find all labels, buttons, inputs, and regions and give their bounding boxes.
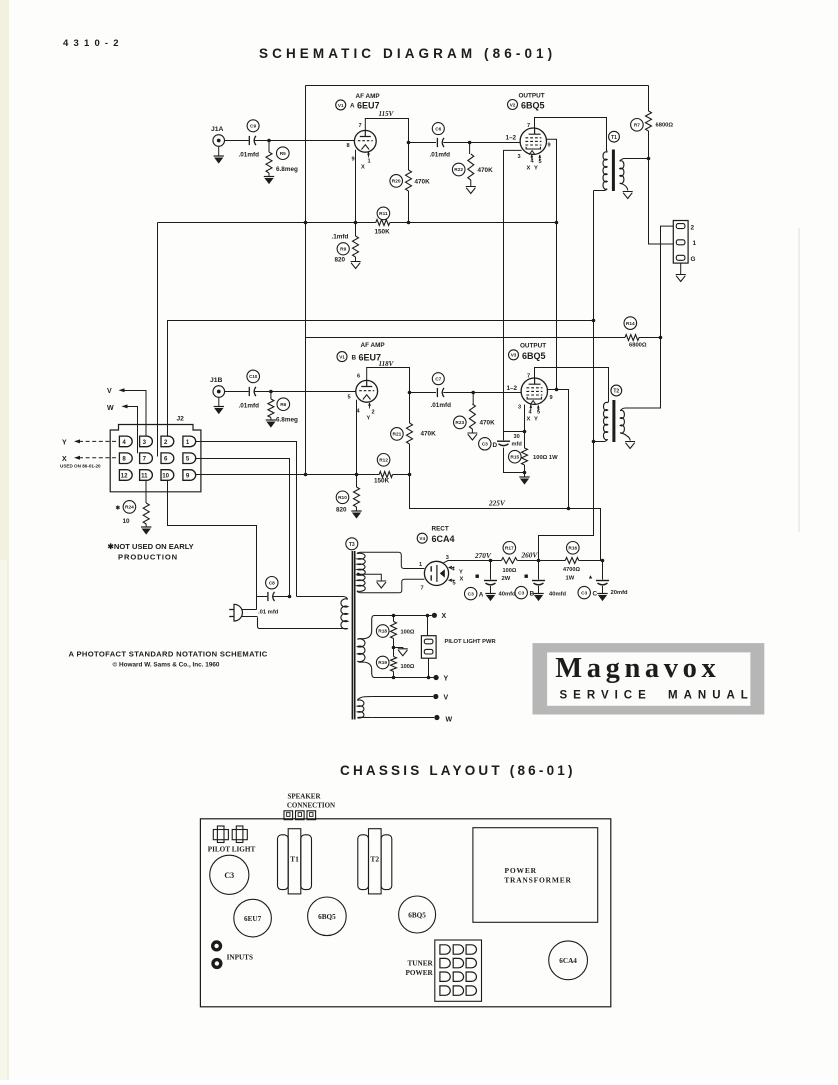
J2 pin 10 [161, 470, 174, 481]
chassis tube 6CA4 [549, 941, 588, 980]
note PHOTOFACT [69, 650, 268, 669]
wire bus corner to J2 pin6 [157, 223, 159, 457]
svg-text:R23: R23 [455, 420, 464, 426]
svg-text:Y: Y [367, 416, 371, 422]
svg-text:C9: C9 [250, 124, 256, 130]
speaker connection terminals [284, 811, 316, 820]
AC plug [229, 604, 257, 621]
resistor R17 100ohm 2W [501, 542, 517, 583]
svg-text:Y: Y [534, 417, 538, 423]
svg-text:X: X [527, 166, 531, 172]
svg-text:150K: 150K [374, 478, 390, 485]
svg-text:C8: C8 [269, 580, 275, 586]
page crease line [798, 228, 800, 532]
svg-text:3: 3 [446, 555, 449, 561]
wire J2 pin5 down to C8 [196, 459, 290, 597]
svg-text:G: G [691, 256, 696, 263]
svg-text:R18: R18 [378, 629, 387, 635]
svg-text:.01mfd: .01mfd [430, 152, 451, 159]
svg-text:C3: C3 [482, 442, 488, 448]
wire J1B to grid V1B [225, 390, 356, 394]
svg-text:C3: C3 [468, 591, 474, 597]
svg-text:.01mfd: .01mfd [239, 152, 260, 159]
svg-text:R5: R5 [280, 151, 286, 157]
svg-text:TUNER: TUNER [408, 960, 434, 968]
wire C7 to grid V3 [443, 391, 521, 395]
svg-text:6.8meg: 6.8meg [276, 166, 298, 173]
svg-text:R6: R6 [280, 402, 286, 408]
wire heater Y line [374, 675, 449, 683]
label V1A AF AMP 6EU7 [336, 93, 381, 111]
wire V3 pin9 to 225V [548, 390, 569, 509]
resistor R15 100ohm 1W [509, 432, 559, 485]
svg-text:R9: R9 [340, 247, 346, 253]
svg-text:V1: V1 [339, 355, 345, 360]
label 260V [521, 551, 539, 560]
resistor R20 470K [390, 143, 430, 223]
label 270V [474, 551, 492, 560]
svg-text:.1mfd: .1mfd [332, 234, 349, 241]
wire R7 junction to speaker pin1 [649, 159, 674, 245]
label USED ON 86-01-20 [60, 464, 101, 469]
title SCHEMATIC DIAGRAM (86-01) [259, 46, 556, 61]
svg-text:T1: T1 [611, 135, 617, 141]
svg-text:5: 5 [453, 581, 456, 587]
capacitor C6 .01mfd [430, 123, 451, 159]
label V1B AF AMP 6EU7 [337, 342, 385, 363]
svg-text:D: D [493, 442, 498, 449]
J2 pin 8 [119, 453, 132, 464]
svg-text:100Ω 1W: 100Ω 1W [533, 455, 558, 461]
svg-text:AF AMP: AF AMP [361, 342, 386, 349]
label TUNER POWER [406, 960, 434, 978]
jack J1A [211, 126, 225, 146]
svg-text:R17: R17 [505, 546, 514, 552]
svg-text:4310-2: 4310-2 [63, 38, 124, 49]
svg-text:2W: 2W [502, 576, 511, 582]
chassis outline [200, 819, 610, 1007]
wire T3 HV to V4 pin1 [357, 552, 425, 568]
speaker connector 2-1-G [673, 221, 696, 264]
wire B+ feed to T1 T2 primaries [539, 191, 596, 561]
rectifier V4 6CA4 [419, 555, 464, 592]
jack J1B [210, 377, 225, 397]
transformer T1 [594, 131, 649, 198]
J2 pin 6 [161, 453, 174, 464]
pilot lamp [421, 616, 436, 678]
svg-text:6BQ5: 6BQ5 [522, 351, 546, 361]
resistor R11 150K [375, 207, 391, 235]
svg-text:6800Ω: 6800Ω [656, 123, 674, 129]
resistor R24 10 [116, 480, 152, 535]
chassis tube 6EU7 [234, 899, 272, 937]
svg-text:V: V [444, 695, 449, 702]
wire rail to R14 [306, 337, 626, 339]
svg-text:B: B [352, 355, 357, 362]
wire bus y223 [158, 221, 559, 225]
svg-text:A: A [350, 103, 355, 110]
T3 heater winding X-Y [357, 616, 374, 678]
svg-text:R7: R7 [634, 123, 640, 129]
svg-text:40mfd: 40mfd [499, 591, 517, 597]
svg-text:SERVICE: SERVICE [560, 690, 652, 702]
svg-text:W: W [107, 405, 114, 412]
svg-text:.01 mfd: .01 mfd [258, 610, 279, 616]
svg-text:J1B: J1B [210, 377, 223, 384]
svg-text:470K: 470K [421, 431, 437, 438]
resistor R9 820 / .1mfd [332, 223, 361, 269]
svg-text:1: 1 [368, 159, 371, 165]
svg-text:3: 3 [518, 154, 521, 160]
svg-text:8: 8 [347, 143, 350, 149]
svg-text:9: 9 [550, 395, 553, 401]
svg-text:C3: C3 [224, 871, 234, 880]
svg-text:PILOT LIGHT PWR: PILOT LIGHT PWR [445, 639, 497, 645]
capacitor C8 .01mfd [257, 577, 292, 616]
svg-text:V4: V4 [419, 536, 425, 541]
svg-text:T2: T2 [370, 855, 379, 864]
svg-text:9: 9 [352, 157, 355, 163]
wire V1B plate to C7 [367, 368, 436, 395]
svg-text:✱: ✱ [116, 505, 121, 512]
svg-text:C: C [593, 591, 598, 598]
svg-text:6CA4: 6CA4 [559, 957, 577, 965]
svg-text:115V: 115V [379, 110, 395, 118]
svg-text:R16: R16 [568, 546, 577, 552]
wire V1A plate to C6 [365, 119, 436, 145]
svg-text:R22: R22 [454, 167, 463, 173]
svg-text:470K: 470K [478, 167, 494, 174]
resistor R23 470K [454, 393, 496, 441]
capacitor C3A 40mfd [465, 561, 517, 602]
svg-text:Y: Y [444, 676, 449, 683]
svg-text:1W: 1W [566, 576, 575, 582]
wire B+ top rail [306, 85, 649, 87]
svg-text:118V: 118V [379, 360, 395, 368]
chassis transformer T1 [278, 829, 312, 894]
svg-text:2: 2 [164, 439, 168, 446]
svg-text:20mfd: 20mfd [611, 590, 629, 596]
wire speaker pin2 to T2 secondary [629, 226, 673, 408]
resistor R10 820 [336, 475, 362, 519]
svg-text:100Ω: 100Ω [401, 664, 415, 670]
svg-text:7: 7 [421, 586, 424, 592]
resistor R21 470K [391, 393, 436, 475]
svg-text:R11: R11 [379, 211, 388, 217]
label 115V [379, 110, 395, 118]
svg-text:J2: J2 [177, 416, 185, 423]
wire heater V line [372, 694, 449, 702]
J2 pin 1 [183, 436, 196, 447]
svg-text:6.8meg: 6.8meg [276, 417, 298, 424]
label PILOT LIGHT PWR [445, 639, 497, 645]
svg-text:A: A [479, 592, 484, 599]
svg-text:6800Ω: 6800Ω [629, 343, 647, 349]
svg-text:1–2: 1–2 [506, 135, 517, 142]
svg-text:.01mfd: .01mfd [239, 403, 260, 410]
svg-text:POWER: POWER [406, 969, 434, 977]
svg-text:MANUAL: MANUAL [668, 690, 754, 702]
resistor R7 6800ohm [631, 86, 674, 161]
svg-text:R14: R14 [626, 321, 635, 327]
svg-text:10: 10 [123, 518, 131, 525]
wire V3 plate to T2 [535, 368, 609, 403]
capacitor can C3 [210, 855, 249, 894]
label 118V [379, 360, 395, 368]
wire J2 pin1 to T3 primary [196, 442, 297, 597]
svg-text:4700Ω: 4700Ω [563, 567, 580, 573]
svg-text:820: 820 [336, 507, 347, 514]
wire X dashed to J2 pin8 [62, 456, 118, 463]
svg-text:11: 11 [141, 472, 148, 479]
ground at J1A [214, 146, 224, 163]
svg-text:1: 1 [419, 562, 422, 568]
wire V1A cathode [355, 150, 357, 223]
svg-text:CONNECTION: CONNECTION [287, 802, 335, 810]
svg-text:7: 7 [359, 123, 362, 129]
ground at R18 R19 junction [392, 646, 408, 656]
resistor R18 100ohm [376, 616, 414, 648]
svg-text:40mfd: 40mfd [549, 591, 567, 597]
pilot light terminals [213, 826, 247, 843]
capacitor C3D 30mfd [479, 432, 527, 475]
triode V1 section A 6EU7 [347, 123, 377, 171]
wire W to J2 pin7 [107, 404, 138, 453]
svg-text:R15: R15 [510, 454, 519, 460]
svg-text:R24: R24 [125, 505, 134, 511]
svg-text:6BQ5: 6BQ5 [318, 913, 336, 921]
svg-text:R12: R12 [379, 458, 388, 464]
svg-text:6EU7: 6EU7 [244, 915, 262, 923]
triode V1 section B 6EU7 [348, 374, 378, 422]
svg-text:R10: R10 [338, 495, 347, 501]
wire feedback rail x306 [304, 86, 308, 477]
label V3 OUTPUT 6BQ5 [509, 343, 547, 361]
svg-text:POWER: POWER [505, 866, 537, 875]
svg-text:Y: Y [459, 570, 463, 576]
svg-text:2: 2 [691, 225, 695, 232]
J2 pin 7 [140, 453, 153, 464]
wire V2 pin9 down [546, 139, 558, 391]
resistor R16 4700ohm 1W [563, 542, 580, 582]
svg-text:470K: 470K [415, 179, 431, 186]
svg-text:R19: R19 [378, 660, 387, 666]
tuner power connector [435, 940, 482, 1001]
J2 pin 2 [161, 436, 174, 447]
T3 HV center tap ground [357, 573, 387, 588]
svg-text:12: 12 [121, 472, 128, 479]
label V2 OUTPUT 6BQ5 [508, 93, 545, 111]
wire 270V 260V B+ line [444, 559, 605, 563]
chassis transformer T2 [358, 829, 392, 894]
J2 pin 11 [140, 470, 153, 481]
svg-text:6BQ5: 6BQ5 [408, 911, 426, 919]
wire V3 cathode to R15 [524, 405, 526, 432]
svg-text:C7: C7 [435, 376, 441, 382]
J2 pin 9 [183, 470, 196, 481]
wire T3 HV to V4 pin7 [357, 579, 425, 593]
pentode V3 6BQ5 [507, 374, 553, 423]
resistor R22 470K [452, 143, 493, 194]
svg-text:7: 7 [527, 123, 530, 129]
chassis power transformer [473, 828, 598, 923]
svg-text:6: 6 [357, 374, 360, 380]
svg-text:A PHOTOFACT STANDARD NOTATION: A PHOTOFACT STANDARD NOTATION SCHEMATIC [69, 650, 268, 659]
resistor R5 6.8meg [264, 141, 298, 185]
svg-text:C3: C3 [581, 590, 587, 596]
svg-text:5: 5 [348, 395, 351, 401]
svg-text:W: W [446, 717, 453, 724]
svg-text:Y: Y [534, 166, 538, 172]
label NOT USED ON EARLY PRODUCTION [108, 542, 194, 562]
wire J1A to grid V1A [225, 139, 355, 143]
svg-text:1–2: 1–2 [507, 385, 518, 392]
svg-text:150K: 150K [375, 229, 391, 236]
transformer T2 [594, 385, 636, 448]
capacitor C3C 20mfd [578, 561, 628, 602]
resistor R12 150K [374, 454, 393, 485]
svg-text:✱NOT USED ON EARLY: ✱NOT USED ON EARLY [108, 542, 194, 551]
svg-text:C10: C10 [249, 374, 258, 379]
capacitor C7 .01mfd [431, 373, 452, 409]
svg-text:6EU7: 6EU7 [357, 101, 380, 111]
label V4 RECT 6CA4 [417, 526, 454, 545]
svg-text:7: 7 [527, 374, 530, 380]
label SPEAKER CONNECTION [287, 793, 335, 810]
svg-text:T3: T3 [349, 542, 355, 548]
wire V1B cathode [356, 400, 358, 475]
svg-text:30: 30 [514, 434, 520, 440]
wire C6 to grid V2 [443, 141, 520, 145]
connector J2 [110, 416, 201, 492]
svg-text:C6: C6 [435, 126, 441, 132]
svg-text:6CA4: 6CA4 [432, 534, 455, 544]
svg-text:100Ω: 100Ω [401, 630, 415, 636]
capacitor C9 .01mfd [239, 120, 260, 159]
svg-text:V3: V3 [511, 353, 517, 358]
capacitor C3B 40mfd [515, 561, 567, 602]
svg-text:2: 2 [372, 410, 375, 416]
chassis tube 6BQ5 first [308, 897, 347, 936]
svg-text:V1: V1 [338, 103, 344, 108]
svg-text:R20: R20 [392, 179, 401, 185]
svg-text:225V: 225V [488, 499, 506, 508]
svg-text:9: 9 [548, 143, 551, 149]
wire V to J2 pin3 [107, 388, 146, 436]
wire heater X line [374, 613, 447, 620]
svg-text:Magnavox: Magnavox [555, 653, 720, 684]
svg-text:© Howard W. Sams & Co., Inc. 1: © Howard W. Sams & Co., Inc. 1960 [113, 661, 220, 669]
svg-text:OUTPUT: OUTPUT [520, 343, 546, 350]
resistor R14 6800ohm [624, 317, 661, 349]
svg-text:RECT: RECT [432, 526, 449, 533]
ground at J1B [214, 397, 224, 414]
T3 heater winding V-W [357, 697, 371, 719]
svg-text:C3: C3 [518, 590, 524, 596]
svg-text:820: 820 [335, 257, 346, 264]
resistor R19 100ohm [376, 648, 414, 678]
title CHASSIS LAYOUT (86-01) [340, 763, 576, 778]
T3 primary winding [258, 597, 348, 629]
svg-text:X: X [361, 165, 365, 171]
svg-text:SPEAKER: SPEAKER [287, 793, 321, 801]
svg-text:mfd: mfd [512, 441, 523, 447]
svg-text:R21: R21 [392, 432, 401, 438]
wire Y dashed to J2 pin4 [62, 439, 118, 446]
svg-text:X: X [460, 577, 464, 583]
svg-text:100Ω: 100Ω [503, 568, 517, 574]
svg-text:.01mfd: .01mfd [431, 402, 452, 409]
wire bus y474 J2 pin9 to R12 [196, 473, 411, 477]
wire AC switch line to J2 pin10 [168, 480, 257, 610]
label INPUTS [227, 953, 253, 961]
svg-text:1: 1 [693, 240, 697, 247]
svg-text:V2: V2 [510, 102, 516, 107]
J2 pin 12 [119, 470, 132, 481]
svg-text:X: X [527, 417, 531, 423]
svg-text:OUTPUT: OUTPUT [519, 93, 545, 100]
svg-text:6BQ5: 6BQ5 [521, 101, 545, 111]
svg-text:V: V [107, 388, 112, 395]
svg-text:SCHEMATIC DIAGRAM (86-01): SCHEMATIC DIAGRAM (86-01) [259, 46, 556, 61]
T3 HV winding [357, 553, 365, 591]
J2 pin 5 [183, 453, 196, 464]
svg-text:PILOT LIGHT: PILOT LIGHT [208, 846, 256, 854]
resistor R6 6.8meg [266, 392, 298, 428]
svg-text:CHASSIS LAYOUT (86-01): CHASSIS LAYOUT (86-01) [340, 763, 576, 778]
ground at speaker connector [676, 263, 686, 281]
svg-text:USED ON 86-01-20: USED ON 86-01-20 [60, 464, 101, 469]
svg-text:PRODUCTION: PRODUCTION [118, 553, 178, 562]
svg-text:INPUTS: INPUTS [227, 953, 253, 961]
capacitor C10 .01mfd [239, 370, 260, 409]
svg-text:260V: 260V [521, 551, 539, 560]
svg-text:J1A: J1A [211, 126, 224, 133]
wire V2 plate to T1 [535, 118, 607, 152]
pentode V2 6BQ5 [506, 123, 551, 172]
wire 225V run [410, 475, 601, 561]
wire V2 cathode pin3 down to R15 [504, 150, 527, 433]
wire heater W line [372, 715, 453, 724]
transformer T3 [346, 538, 358, 720]
J2 pin 4 [119, 436, 132, 447]
svg-text:270V: 270V [474, 551, 492, 560]
Magnavox service manual logo [533, 643, 765, 714]
svg-text:TRANSFORMER: TRANSFORMER [504, 876, 572, 885]
J2 pin 3 [140, 436, 153, 447]
label PILOT LIGHT [208, 846, 256, 854]
chassis tube 6BQ5 second [399, 896, 436, 933]
svg-text:470K: 470K [480, 420, 496, 427]
svg-text:6: 6 [164, 456, 168, 463]
svg-text:3: 3 [518, 405, 521, 411]
svg-text:X: X [442, 613, 447, 620]
svg-text:T2: T2 [613, 389, 619, 395]
svg-text:B: B [530, 591, 535, 598]
svg-text:10: 10 [162, 472, 169, 479]
svg-text:Y: Y [62, 440, 67, 447]
svg-text:X: X [62, 456, 67, 463]
page number 4310-2 [63, 38, 124, 49]
wire bus y320 to J2 pin2 [168, 321, 594, 437]
svg-text:T1: T1 [290, 855, 299, 864]
chassis input jacks [211, 940, 222, 969]
svg-text:AF AMP: AF AMP [356, 93, 381, 100]
label 225V [488, 499, 506, 508]
